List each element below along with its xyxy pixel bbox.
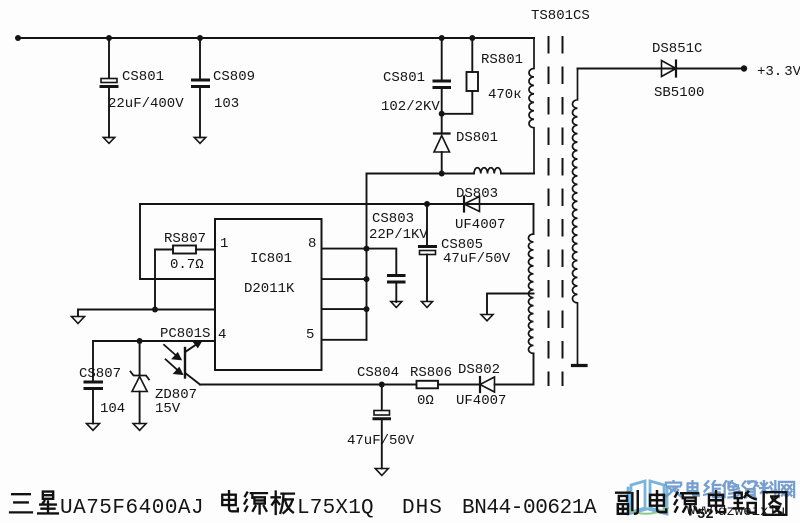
transformer core dashed line 1 bbox=[548, 37, 550, 385]
ground CS803 bbox=[391, 302, 402, 308]
svg-text:4: 4 bbox=[218, 327, 226, 343]
svg-text:47uF/50V: 47uF/50V bbox=[443, 251, 511, 267]
wire aux rail y174 bbox=[367, 173, 475, 175]
transistor PC801S phototransistor bbox=[185, 341, 202, 385]
capacitor CS801 bbox=[101, 79, 117, 138]
wire pin4 bbox=[93, 341, 215, 381]
watermark logo swoosh bbox=[626, 508, 668, 514]
ground CS807 bbox=[87, 424, 100, 431]
svg-text:22uF/400V: 22uF/400V bbox=[108, 96, 184, 112]
caption 三 bbox=[10, 494, 32, 512]
ground left bbox=[72, 317, 85, 324]
svg-text:CS801: CS801 bbox=[122, 69, 164, 85]
svg-text:DS802: DS802 bbox=[458, 362, 500, 378]
svg-text:DS851C: DS851C bbox=[652, 41, 702, 57]
diode DS802 bbox=[480, 377, 495, 392]
wire DS803 rail y204 bbox=[140, 203, 534, 205]
node RS807 bottom junction bbox=[152, 307, 158, 313]
ground ZD807 bbox=[133, 424, 146, 431]
node CS805 tap bbox=[424, 201, 430, 207]
op-amp IC801 box bbox=[215, 219, 322, 370]
wire inductor to primary bbox=[501, 173, 534, 175]
svg-text:104: 104 bbox=[100, 401, 125, 417]
svg-text:0.7Ω: 0.7Ω bbox=[170, 257, 204, 273]
svg-text:UF4007: UF4007 bbox=[455, 217, 505, 233]
ground CS805 bbox=[422, 302, 433, 308]
caption 源 bbox=[245, 493, 267, 514]
caption 板 bbox=[272, 492, 294, 514]
optocoupler light arrow 1 bbox=[164, 345, 181, 360]
transformer core dashed line 2 bbox=[562, 37, 564, 385]
zener ZD807 bbox=[131, 372, 150, 424]
watermark text 网 bbox=[779, 482, 794, 497]
watermark text 电 bbox=[688, 481, 699, 496]
svg-text:DHS: DHS bbox=[402, 497, 443, 520]
resistor RS806 bbox=[417, 381, 439, 389]
svg-text:RS801: RS801 bbox=[481, 52, 523, 68]
caption 电 bbox=[222, 491, 238, 511]
node pin8 junction bbox=[364, 246, 370, 252]
wire RS801 branch bbox=[471, 38, 473, 72]
inductor L aux bbox=[474, 168, 501, 174]
svg-text:IC801: IC801 bbox=[250, 251, 292, 267]
svg-text:CS801: CS801 bbox=[383, 70, 425, 86]
svg-text:22P/1KV: 22P/1KV bbox=[369, 227, 428, 243]
transformer TS801CS primary winding bbox=[529, 38, 534, 174]
node +3.3V terminal bbox=[741, 65, 747, 71]
wire aux winding top bbox=[533, 204, 535, 234]
node CS801 tap bbox=[106, 35, 112, 41]
caption 星 bbox=[38, 492, 58, 514]
svg-text:0Ω: 0Ω bbox=[417, 393, 434, 409]
capacitor CS809 bbox=[193, 80, 209, 137]
node DS801 bottom junction bbox=[439, 171, 445, 177]
diode DS851C bbox=[662, 61, 677, 77]
node RS801 tap bbox=[469, 35, 475, 41]
resistor RS807 bbox=[173, 246, 196, 254]
watermark text 修 bbox=[723, 481, 740, 498]
svg-text:UA75F6400AJ: UA75F6400AJ bbox=[60, 497, 204, 520]
svg-text:103: 103 bbox=[214, 96, 239, 112]
wire pin6 right bbox=[322, 308, 367, 310]
svg-text:TS801CS: TS801CS bbox=[531, 8, 590, 24]
wire pin7 bbox=[322, 278, 367, 280]
wire aux bottom bbox=[533, 353, 535, 384]
ground aux tap bbox=[481, 315, 493, 321]
ground secondary bar bbox=[573, 364, 587, 367]
caption 电 c bbox=[709, 491, 725, 512]
svg-text:15V: 15V bbox=[155, 401, 181, 417]
watermark text 料 bbox=[760, 481, 776, 498]
svg-text:5: 5 bbox=[306, 327, 314, 343]
svg-text:CS809: CS809 bbox=[213, 69, 255, 85]
svg-text:DS801: DS801 bbox=[456, 130, 498, 146]
svg-text:102/2KV: 102/2KV bbox=[381, 99, 440, 115]
wire CS801 branch bbox=[108, 38, 110, 78]
caption 路 bbox=[734, 492, 756, 513]
watermark text 维 bbox=[704, 481, 721, 497]
watermark text 资 bbox=[743, 481, 759, 498]
capacitor CS805 bbox=[420, 247, 436, 302]
caption 电 b bbox=[650, 491, 666, 512]
svg-text:D2011K: D2011K bbox=[244, 281, 295, 297]
ground CS809 bbox=[194, 137, 205, 143]
wire RS801 bottom bbox=[442, 91, 473, 114]
ground CS801 bbox=[103, 137, 114, 143]
watermark logo book bbox=[628, 481, 667, 514]
capacitor CS803 bbox=[389, 276, 405, 303]
wire CS801b branch bbox=[441, 38, 443, 79]
wire CS809 branch bbox=[199, 38, 201, 78]
wire CS805 branch bbox=[426, 204, 428, 245]
wire secondary to diode bbox=[578, 68, 745, 70]
svg-text:BN44-00621A: BN44-00621A bbox=[462, 497, 597, 520]
wire emitter rail y384 bbox=[200, 384, 417, 386]
node CS804 tap bbox=[379, 382, 385, 388]
node CS801b tap bbox=[439, 35, 445, 41]
svg-text:52: 52 bbox=[697, 507, 714, 523]
node CS801b RS801 junction bbox=[439, 111, 445, 117]
svg-text:1: 1 bbox=[220, 236, 228, 252]
node ZD807 tap bbox=[137, 338, 143, 344]
svg-text:470к: 470к bbox=[488, 87, 522, 103]
diode DS801 bbox=[434, 134, 450, 174]
caption 副 bbox=[616, 491, 638, 514]
wire left drop to IC bbox=[140, 204, 215, 279]
resistor RS801 bbox=[467, 72, 479, 91]
svg-text:CS804: CS804 bbox=[357, 365, 399, 381]
node input terminal bbox=[15, 35, 21, 41]
node pin7 junction bbox=[364, 276, 370, 282]
node pin6 junction bbox=[364, 306, 370, 312]
svg-text:CS807: CS807 bbox=[79, 366, 121, 382]
node CS809 tap bbox=[197, 35, 203, 41]
svg-text:CS803: CS803 bbox=[372, 211, 414, 227]
transformer secondary winding bbox=[573, 69, 578, 365]
capacitor CS807 bbox=[85, 382, 102, 424]
diode DS803 bbox=[464, 197, 480, 212]
wire top rail bbox=[18, 37, 534, 39]
capacitor CS801 102 bbox=[434, 81, 450, 114]
transformer aux winding bbox=[529, 234, 534, 353]
svg-text:SB5100: SB5100 bbox=[654, 85, 704, 101]
capacitor CS804 bbox=[374, 385, 390, 469]
wire pin6 left bbox=[78, 310, 215, 317]
svg-text:DS803: DS803 bbox=[456, 186, 498, 202]
wire pin1 bbox=[155, 250, 215, 310]
watermark text 家 bbox=[666, 480, 681, 496]
wire pin5 bbox=[322, 339, 367, 341]
caption 图 bbox=[764, 492, 787, 515]
wire pin8 bbox=[322, 249, 397, 274]
wire ZD807 branch bbox=[139, 341, 141, 375]
svg-text:L75X1Q: L75X1Q bbox=[297, 497, 374, 520]
wire aux vertical x366 bbox=[366, 174, 368, 340]
caption 源 b bbox=[675, 493, 698, 515]
optocoupler light arrow 2 bbox=[166, 359, 183, 374]
svg-text:47uF/50V: 47uF/50V bbox=[347, 433, 415, 449]
svg-text:UF4007: UF4007 bbox=[456, 393, 506, 409]
svg-text:RS806: RS806 bbox=[410, 365, 452, 381]
wire to DS801 bbox=[441, 114, 443, 133]
ground CS804 bbox=[375, 469, 388, 476]
wire RS806 to DS802 bbox=[438, 384, 480, 386]
svg-text:+3.3V: +3.3V bbox=[757, 64, 800, 80]
svg-text:PC801S: PC801S bbox=[160, 326, 210, 342]
wire DS802 to aux winding bbox=[495, 384, 534, 386]
svg-text:8: 8 bbox=[308, 236, 316, 252]
wire aux tap to ground bbox=[487, 294, 534, 315]
svg-text:RS807: RS807 bbox=[164, 231, 206, 247]
